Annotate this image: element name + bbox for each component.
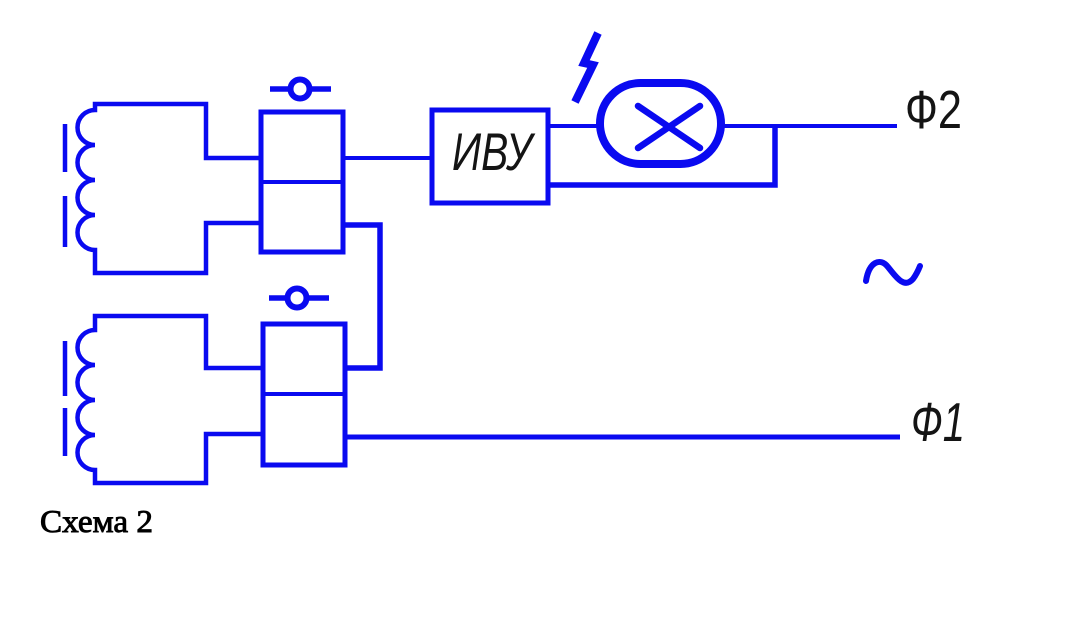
transformer T2 winding and outline <box>78 316 264 483</box>
unit U1 box <box>432 110 548 203</box>
wire S1 lower contact down to S2 upper contact <box>343 225 380 368</box>
wire U1 bypass loop to F2 line <box>547 124 775 185</box>
switch S2 contact box <box>263 324 345 465</box>
switch S1 actuator symbol <box>270 80 331 99</box>
transformer T1 core (dashed line) <box>63 124 68 247</box>
wire S1 upper contact to unit U1 <box>343 156 432 160</box>
AC source symbol (tilde) <box>866 262 920 283</box>
wire U1 output to lamp HL1 <box>547 124 604 128</box>
wire lamp HL1 to phase F2 <box>717 124 897 128</box>
svg-text:Ф1: Ф1 <box>911 391 965 453</box>
svg-text:Схема 2: Схема 2 <box>40 503 153 539</box>
svg-text:ИВУ: ИВУ <box>452 123 536 182</box>
lamp HL1 cross <box>638 106 700 148</box>
svg-text:Ф2: Ф2 <box>905 80 962 140</box>
switch S2 actuator symbol <box>269 289 329 308</box>
switch S1 contact box <box>261 112 343 252</box>
photo flash arrow <box>575 33 598 102</box>
transformer T2 core (dashed line) <box>63 341 68 456</box>
lamp HL1 body <box>600 83 721 164</box>
transformer T1 winding and outline <box>78 104 262 273</box>
wire S2 lower contact to phase F1 <box>344 435 900 440</box>
